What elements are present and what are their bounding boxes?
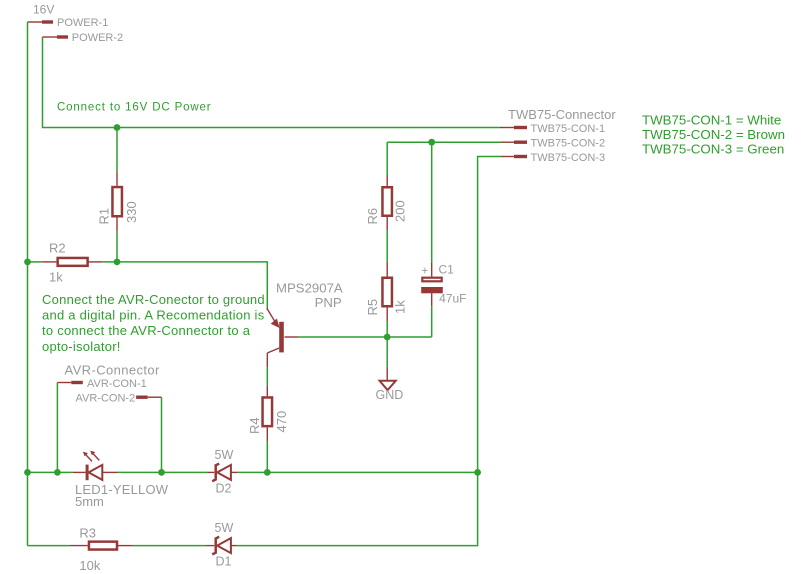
svg-text:R1: R1 xyxy=(97,208,112,225)
LED LED1-YELLOW 5mm xyxy=(73,451,169,509)
svg-text:MPS2907A: MPS2907A xyxy=(276,280,343,295)
svg-text:R3: R3 xyxy=(79,526,96,541)
wire R2 to transistor emitter xyxy=(102,262,267,308)
wire R1 top stub xyxy=(116,128,118,173)
svg-text:PNP: PNP xyxy=(315,295,342,310)
wire net 16V left vertical xyxy=(27,22,29,546)
node junction R2 / R1 xyxy=(114,259,121,266)
svg-text:and a digital pin. A Recomenda: and a digital pin. A Recomendation is xyxy=(42,308,265,323)
svg-text:470: 470 xyxy=(274,411,289,433)
svg-text:TWB75-Connector: TWB75-Connector xyxy=(508,107,616,122)
svg-text:R6: R6 xyxy=(365,208,380,225)
svg-text:TWB75-CON-1 = White: TWB75-CON-1 = White xyxy=(642,112,781,127)
node junction left rail / LED row xyxy=(24,469,31,476)
connector POWER pin 1 xyxy=(28,17,109,29)
wire top rail to TWB75-CON-2 xyxy=(387,141,501,143)
svg-text:R2: R2 xyxy=(49,240,66,255)
connector POWER pin 2 xyxy=(43,32,124,44)
wire R6 top xyxy=(386,142,388,175)
node junction R4 / LED row xyxy=(264,469,271,476)
svg-text:16V: 16V xyxy=(33,3,54,17)
svg-text:POWER-1: POWER-1 xyxy=(57,17,108,29)
svg-text:TWB75-CON-3: TWB75-CON-3 xyxy=(531,152,606,164)
svg-text:5W: 5W xyxy=(215,448,234,462)
wire POWER-2 to top rail xyxy=(43,37,501,128)
diode D2 zener 5W xyxy=(208,448,238,496)
svg-text:47uF: 47uF xyxy=(439,291,466,305)
wire R6 R5 middle xyxy=(386,230,388,262)
svg-text:C1: C1 xyxy=(439,263,455,277)
connector TWB75 pin 2 xyxy=(501,138,605,150)
svg-text:330: 330 xyxy=(124,201,139,223)
node junction AVR-CON-1 / LED row xyxy=(54,469,61,476)
wire R1 bottom xyxy=(116,232,118,262)
svg-text:10k: 10k xyxy=(79,558,100,573)
svg-text:R5: R5 xyxy=(365,299,380,316)
wire C1 top xyxy=(431,142,433,262)
resistor R4 470 xyxy=(247,367,289,472)
capacitor C1 47uF polarized xyxy=(421,262,466,306)
node junction left rail / R2 xyxy=(24,259,31,266)
svg-text:1k: 1k xyxy=(393,300,408,314)
svg-text:POWER-2: POWER-2 xyxy=(72,32,123,44)
wire R5 bottom xyxy=(386,321,388,337)
wire AVR-CON-2 down xyxy=(161,397,163,472)
node junction top rail / C1 xyxy=(428,139,435,146)
node junction CON-3 / LED row xyxy=(474,469,481,476)
svg-text:Connect to 16V DC Power: Connect to 16V DC Power xyxy=(57,102,211,114)
connector TWB75 pin 3 xyxy=(501,152,605,164)
transistor Q1 MPS2907A PNP xyxy=(267,280,343,367)
svg-text:GND: GND xyxy=(376,388,404,402)
svg-text:TWB75-CON-2 = Brown: TWB75-CON-2 = Brown xyxy=(642,127,785,142)
svg-text:AVR-CON-2: AVR-CON-2 xyxy=(76,392,136,404)
svg-text:1k: 1k xyxy=(49,270,63,285)
svg-text:5W: 5W xyxy=(215,521,234,535)
svg-text:D1: D1 xyxy=(216,555,232,569)
wire TWB75-CON-3 down right side xyxy=(478,157,501,473)
resistor R1 330 xyxy=(97,173,140,232)
svg-text:AVR-CON-1: AVR-CON-1 xyxy=(87,378,147,390)
svg-text:D2: D2 xyxy=(216,482,232,496)
svg-text:TWB75-CON-3 = Green: TWB75-CON-3 = Green xyxy=(642,141,784,156)
ground GND xyxy=(376,367,404,402)
wire C1 bottom xyxy=(431,306,433,337)
diode D1 zener 5W xyxy=(207,521,237,569)
note text AVR connector paragraph xyxy=(42,292,265,354)
svg-text:to connect the AVR-Connector t: to connect the AVR-Connector to a xyxy=(42,323,251,338)
svg-text:Connect the AVR-Conector to gr: Connect the AVR-Conector to ground xyxy=(42,292,265,307)
wire LED row xyxy=(28,471,73,473)
wire AVR-CON-1 down xyxy=(56,383,58,473)
node junction AVR-CON-2 / LED row xyxy=(158,469,165,476)
node junction base rail / R5 / GND xyxy=(384,334,391,341)
svg-text:5mm: 5mm xyxy=(75,494,104,509)
svg-text:R4: R4 xyxy=(247,417,262,434)
svg-text:200: 200 xyxy=(393,200,408,222)
svg-text:+: + xyxy=(422,266,429,278)
connector AVR pin 1 xyxy=(57,378,146,390)
svg-text:AVR-Connector: AVR-Connector xyxy=(65,362,161,377)
wire bottom row xyxy=(28,545,71,547)
connector AVR pin 2 xyxy=(76,392,162,404)
svg-text:TWB75-CON-2: TWB75-CON-2 xyxy=(531,138,606,150)
wire base rail to C1 xyxy=(298,336,432,338)
wire GND drop xyxy=(386,337,388,367)
svg-text:opto-isolator!: opto-isolator! xyxy=(42,339,121,354)
resistor R6 200 xyxy=(365,175,408,230)
svg-text:TWB75-CON-1: TWB75-CON-1 xyxy=(531,123,606,135)
note text wire colors xyxy=(642,112,785,156)
connector TWB75 pin 1 xyxy=(500,107,616,135)
resistor R5 1k xyxy=(365,262,408,321)
node junction top rail / R1 xyxy=(114,124,121,131)
resistor R2 1k xyxy=(28,240,103,284)
resistor R3 10k xyxy=(71,526,133,574)
